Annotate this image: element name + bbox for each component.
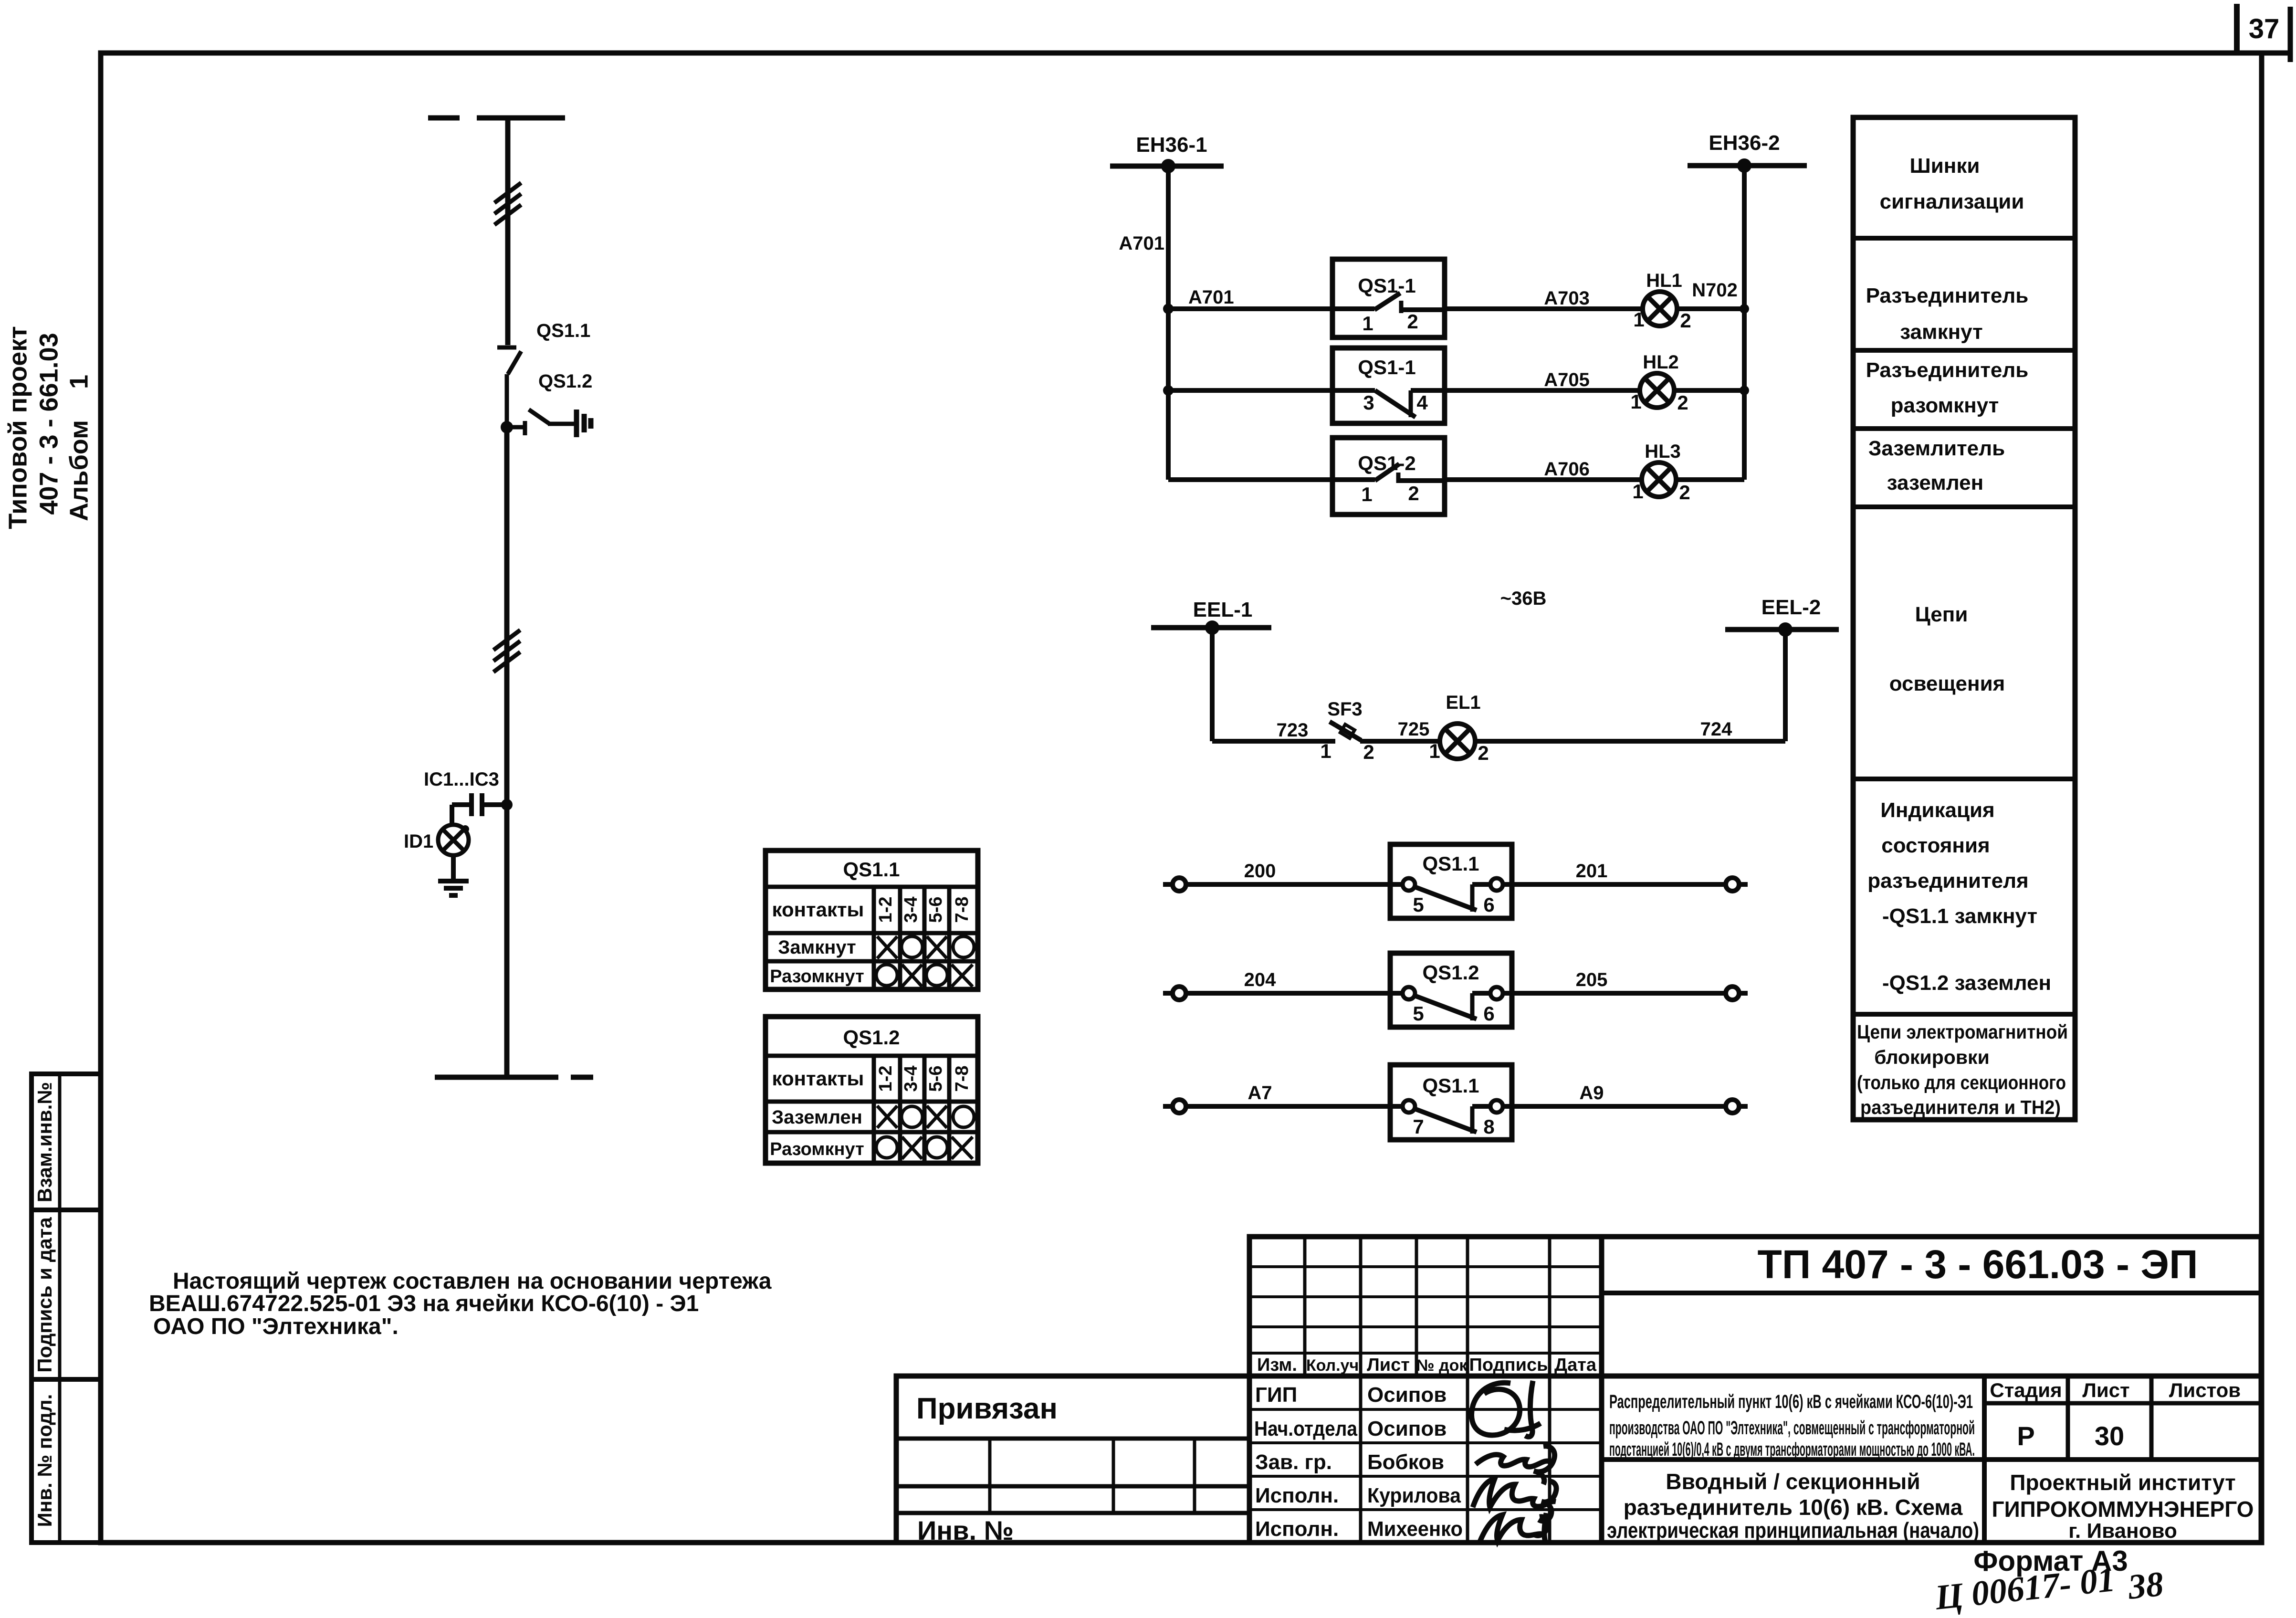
svg-text:Шинки: Шинки (1910, 154, 1980, 178)
svg-text:A701: A701 (1188, 287, 1234, 308)
node: capacitor tap (501, 799, 513, 810)
svg-text:производства ОАО ПО "Элтехника: производства ОАО ПО "Элтехника", совмеще… (1609, 1418, 1975, 1439)
signature squiggle 4 (1479, 1513, 1548, 1543)
svg-text:724: 724 (1700, 719, 1732, 740)
wire 724 (1475, 739, 1785, 744)
svg-text:EH36-2: EH36-2 (1709, 131, 1780, 155)
stage cells (1990, 1379, 2254, 1543)
svg-text:Привязан: Привязан (916, 1392, 1058, 1425)
wire A701 vertical (1166, 166, 1171, 480)
wire: main feeder upper section (505, 118, 511, 345)
svg-text:блокировки: блокировки (1874, 1046, 1990, 1068)
svg-text:Цепи: Цепи (1915, 603, 1968, 626)
svg-text:ТП 407 - 3 - 661.03 - ЭП: ТП 407 - 3 - 661.03 - ЭП (1758, 1242, 2198, 1287)
svg-text:контакты: контакты (772, 898, 864, 921)
contact QS1.1 (pins 7-8) (1390, 1065, 1512, 1140)
svg-text:QS1.2: QS1.2 (843, 1026, 900, 1049)
svg-text:8: 8 (1483, 1115, 1494, 1138)
svg-text:Лист: Лист (1367, 1355, 1410, 1375)
left side stamp boxes (31, 1074, 101, 1543)
svg-text:разомкнут: разомкнут (1891, 394, 1999, 417)
svg-text:1-2: 1-2 (876, 897, 896, 923)
project description (1609, 1391, 1975, 1460)
svg-text:7-8: 7-8 (952, 1066, 972, 1092)
right stage columns (1982, 1376, 1987, 1543)
svg-text:заземлен: заземлен (1887, 471, 1983, 494)
svg-text:Подпись и дата: Подпись и дата (33, 1217, 56, 1373)
QS1.1 state marks row Разомкнут: O X O X (876, 965, 973, 987)
title block header texts (1257, 1355, 1597, 1375)
QS1.1 state marks row Замкнут: X O X O (877, 936, 974, 958)
svg-text:QS1.1: QS1.1 (1422, 852, 1479, 875)
svg-text:QS1-1: QS1-1 (1358, 356, 1415, 378)
svg-text:(только для секционного: (только для секционного (1857, 1072, 2066, 1093)
wire N702 vertical (1742, 166, 1747, 480)
wire HL1 to bus (1677, 306, 1744, 311)
svg-text:Осипов: Осипов (1367, 1383, 1447, 1407)
svg-text:HL1: HL1 (1646, 270, 1682, 291)
svg-text:1: 1 (1320, 740, 1331, 762)
svg-text:A701: A701 (1119, 233, 1164, 254)
svg-text:QS1.2: QS1.2 (1422, 961, 1479, 984)
svg-text:EEL-1: EEL-1 (1193, 598, 1253, 621)
wire HL3 to bus (1676, 477, 1744, 482)
svg-text:Альбом: Альбом (64, 420, 93, 521)
svg-text:HL2: HL2 (1643, 352, 1679, 373)
svg-text:ГИП: ГИП (1255, 1383, 1297, 1407)
svg-text:г. Иваново: г. Иваново (2068, 1519, 2177, 1543)
svg-text:5-6: 5-6 (926, 897, 946, 923)
verticals upper-left mini table (1303, 1237, 1307, 1376)
svg-text:Листов: Листов (2169, 1379, 2241, 1401)
svg-text:Осипов: Осипов (1367, 1417, 1447, 1440)
svg-text:QS1.1: QS1.1 (536, 320, 590, 341)
svg-text:37: 37 (2249, 13, 2280, 44)
horizontals left part (1249, 1265, 1602, 1268)
svg-text:QS1.1: QS1.1 (1422, 1074, 1479, 1097)
svg-text:A7: A7 (1248, 1082, 1272, 1103)
node branch2 (1163, 385, 1174, 396)
svg-text:Зав. гр.: Зав. гр. (1255, 1450, 1332, 1474)
svg-text:2: 2 (1677, 391, 1688, 414)
QS1.2 state marks row Разомкнут: O X O X (876, 1137, 973, 1159)
svg-text:Распределительный пункт 10(6): Распределительный пункт 10(6) кВ с ячейк… (1609, 1391, 1973, 1412)
svg-text:N702: N702 (1692, 280, 1738, 301)
svg-text:Настоящий чертеж составлен на: Настоящий чертеж составлен на основании … (173, 1269, 772, 1294)
QS1.2 state marks row Заземлен: X O X O (877, 1106, 974, 1128)
wire A706 (1445, 477, 1642, 482)
svg-text:1: 1 (1429, 740, 1440, 762)
svg-text:Р: Р (2017, 1421, 2034, 1451)
svg-text:2: 2 (1408, 482, 1419, 504)
svg-text:SF3: SF3 (1327, 699, 1362, 720)
svg-text:Типовой проект: Типовой проект (3, 326, 32, 529)
wire: main feeder lower section (504, 427, 510, 1077)
svg-text:сигнализации: сигнализации (1880, 190, 2024, 213)
sheet number 37 box (2237, 4, 2290, 62)
signature squiggle 2 (1476, 1446, 1555, 1484)
svg-text:QS1.1: QS1.1 (843, 858, 900, 881)
wire EEL-2 drop (1783, 630, 1788, 741)
wire branch2 left (1168, 388, 1332, 393)
svg-text:1: 1 (1361, 483, 1372, 505)
svg-text:Кол.уч: Кол.уч (1306, 1356, 1359, 1375)
svg-text:Взам.инв.№: Взам.инв.№ (33, 1082, 56, 1202)
svg-text:Индикация: Индикация (1880, 798, 1994, 822)
svg-text:5: 5 (1413, 1002, 1424, 1025)
wire 725 (1360, 739, 1440, 744)
svg-text:Михеенко: Михеенко (1367, 1517, 1463, 1541)
svg-text:4: 4 (1416, 391, 1428, 414)
wire 723 (1212, 739, 1335, 744)
svg-text:1-2: 1-2 (876, 1066, 896, 1092)
svg-text:723: 723 (1277, 720, 1309, 741)
svg-text:IC1...IC3: IC1...IC3 (424, 769, 499, 790)
wire HL2 to bus (1674, 388, 1744, 393)
svg-text:Подпись: Подпись (1469, 1355, 1548, 1375)
svg-text:2: 2 (1478, 742, 1489, 764)
svg-text:407 - 3 - 661.03: 407 - 3 - 661.03 (34, 333, 63, 515)
svg-text:QS1-1: QS1-1 (1358, 274, 1415, 297)
svg-text:2: 2 (1679, 481, 1690, 504)
svg-text:освещения: освещения (1889, 672, 2005, 695)
svg-text:Разъединитель: Разъединитель (1866, 284, 2029, 307)
svg-text:1: 1 (64, 375, 93, 389)
svg-text:QS1.2: QS1.2 (538, 371, 592, 392)
svg-text:Разомкнут: Разомкнут (770, 967, 864, 987)
svg-text:~36В: ~36В (1500, 588, 1547, 609)
lamp ID1 (438, 825, 469, 855)
rotated project title: Типовой проект 407-3-661.03 Альбом 1 (3, 326, 93, 529)
wire A705 (1445, 388, 1641, 393)
ground symbol of QS1.2 (sideways) (577, 410, 591, 437)
circuit 204/205 (1163, 987, 1390, 1000)
svg-text:1: 1 (1630, 390, 1641, 413)
svg-text:Инв. №: Инв. № (917, 1515, 1014, 1545)
svg-text:Дата: Дата (1554, 1355, 1597, 1375)
cable slashes lower (493, 630, 520, 672)
svg-text:Нач.отдела: Нач.отдела (1254, 1417, 1357, 1440)
svg-text:Бобков: Бобков (1367, 1450, 1444, 1474)
svg-text:2: 2 (1363, 741, 1374, 763)
svg-text:разъединителя: разъединителя (1867, 869, 2028, 893)
svg-text:A703: A703 (1544, 288, 1590, 309)
handwritten inventory number (1933, 1560, 2165, 1618)
svg-text:5: 5 (1413, 893, 1424, 916)
svg-text:Исполн.: Исполн. (1255, 1517, 1339, 1541)
circuit 200/201 (1163, 878, 1390, 891)
bottom busbar (435, 1075, 593, 1080)
svg-text:HL3: HL3 (1645, 441, 1681, 462)
svg-text:30: 30 (2095, 1421, 2124, 1451)
svg-text:200: 200 (1244, 861, 1276, 882)
svg-text:электрическая принципиальная (: электрическая принципиальная (начало) (1607, 1518, 1979, 1543)
svg-text:состояния: состояния (1881, 834, 1990, 857)
wire EEL-1 drop (1210, 628, 1215, 741)
svg-text:ID1: ID1 (404, 831, 433, 852)
svg-text:ГИПРОКОММУНЭНЕРГО: ГИПРОКОММУНЭНЕРГО (1992, 1497, 2254, 1522)
svg-text:Стадия: Стадия (1990, 1379, 2062, 1401)
svg-text:3-4: 3-4 (901, 1066, 921, 1092)
wire lamp to ground (451, 855, 456, 881)
svg-text:Проектный институт: Проектный институт (2010, 1470, 2235, 1495)
svg-text:EL1: EL1 (1446, 692, 1480, 713)
svg-text:7: 7 (1413, 1115, 1424, 1138)
svg-text:38: 38 (2126, 1565, 2165, 1607)
svg-text:2: 2 (1680, 309, 1691, 332)
contact QS1-1 (pins 1-2) (1332, 259, 1445, 337)
svg-text:ВЕАШ.674722.525-01 Э3 на ячейк: ВЕАШ.674722.525-01 Э3 на ячейки КСО-6(10… (149, 1291, 699, 1316)
svg-text:205: 205 (1576, 969, 1608, 990)
svg-text:Цепи электромагнитной: Цепи электромагнитной (1857, 1021, 2068, 1043)
svg-text:5-6: 5-6 (926, 1066, 946, 1092)
signature squiggle 3 (1473, 1479, 1556, 1521)
svg-text:-QS1.1 замкнут: -QS1.1 замкнут (1882, 904, 2037, 928)
svg-text:204: 204 (1244, 969, 1276, 990)
node: junction of QS1.1 and QS1.2 (501, 421, 513, 433)
svg-text:Вводный / секционный: Вводный / секционный (1666, 1469, 1920, 1494)
svg-text:Лист: Лист (2082, 1379, 2129, 1401)
svg-text:Замкнут: Замкнут (778, 937, 856, 958)
svg-text:Инв. № подл.: Инв. № подл. (33, 1394, 56, 1527)
svg-text:Заземлен: Заземлен (772, 1107, 862, 1128)
svg-text:Изм.: Изм. (1257, 1355, 1297, 1375)
svg-text:3-4: 3-4 (901, 897, 921, 923)
contact QS1.1 (pins 5-6) (1390, 844, 1512, 918)
contact QS1.2 (pins 5-6) (1390, 953, 1512, 1027)
contact QS1-1 (pins 3-4) (1332, 348, 1445, 423)
svg-text:разъединитель 10(6) кВ. Схема: разъединитель 10(6) кВ. Схема (1624, 1495, 1963, 1520)
svg-text:контакты: контакты (772, 1067, 864, 1090)
svg-text:1: 1 (1632, 480, 1643, 503)
circuit A7/A9 (1163, 1100, 1390, 1113)
svg-text:Разомкнут: Разомкнут (770, 1139, 864, 1159)
svg-text:Заземлитель: Заземлитель (1868, 437, 2005, 460)
wire branch1 left (1168, 306, 1332, 311)
signature squiggle 1 (1472, 1381, 1541, 1437)
svg-text:EEL-2: EEL-2 (1761, 596, 1821, 619)
svg-text:725: 725 (1398, 719, 1430, 740)
svg-text:EH36-1: EH36-1 (1136, 133, 1207, 157)
node branch1 (1163, 304, 1174, 314)
top busbar (428, 116, 565, 121)
title block roles (1254, 1383, 1463, 1541)
svg-text:6: 6 (1483, 893, 1494, 916)
svg-text:Курилова: Курилова (1367, 1484, 1461, 1507)
capacitor IC1...IC3 (452, 793, 507, 825)
svg-text:Разъединитель: Разъединитель (1866, 358, 2029, 382)
svg-text:6: 6 (1483, 1002, 1494, 1025)
svg-text:1: 1 (1633, 308, 1644, 331)
svg-text:7-8: 7-8 (952, 897, 972, 923)
svg-text:3: 3 (1363, 391, 1374, 414)
svg-text:1: 1 (1362, 312, 1373, 335)
ground (438, 881, 469, 895)
wire A703 (1445, 306, 1643, 311)
contact QS1-2 (pins 1-2) (1332, 438, 1445, 515)
svg-text:-QS1.2 заземлен: -QS1.2 заземлен (1882, 971, 2051, 995)
svg-text:QS1-2: QS1-2 (1358, 452, 1415, 474)
svg-text:замкнут: замкнут (1900, 320, 1982, 344)
disconnector QS1.1 (497, 347, 521, 426)
earthing switch QS1.2 (507, 410, 577, 435)
svg-text:A706: A706 (1544, 459, 1590, 480)
svg-text:№ док: № док (1416, 1356, 1468, 1375)
cable slashes upper (494, 183, 521, 225)
middle caption divider (1602, 1457, 2261, 1462)
svg-text:Исполн.: Исполн. (1255, 1484, 1339, 1507)
svg-text:2: 2 (1407, 310, 1418, 333)
svg-text:201: 201 (1576, 861, 1608, 882)
svg-text:подстанцией 10(6)/0,4 кВ с дву: подстанцией 10(6)/0,4 кВ с двумя трансфо… (1609, 1439, 1975, 1460)
svg-text:A9: A9 (1579, 1082, 1604, 1103)
sheet caption (1607, 1469, 1979, 1543)
wire branch3 left (1168, 477, 1332, 482)
doc number cell bottom (1602, 1291, 2261, 1295)
svg-text:разъединителя и ТН2): разъединителя и ТН2) (1860, 1096, 2061, 1118)
svg-text:A705: A705 (1544, 369, 1590, 390)
svg-text:ОАО ПО "Элтехника".: ОАО ПО "Элтехника". (153, 1314, 398, 1339)
